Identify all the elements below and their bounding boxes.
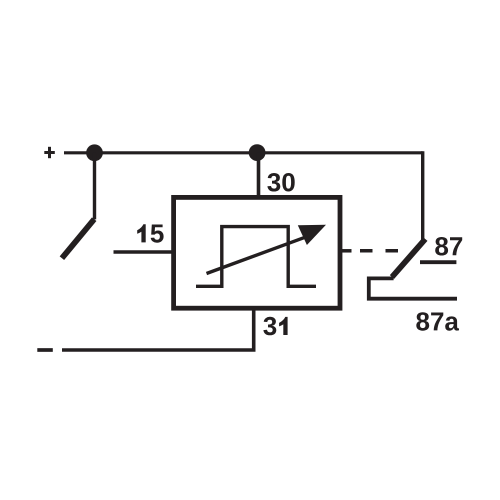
flasher pulse waveform symbol inside K1: [196, 227, 316, 287]
wire: terminal 15 lead into relay box: [114, 250, 173, 254]
junction node B (dot over supply rail, terminal 30 feed): [249, 144, 266, 161]
variability arrow shaft across pulse symbol: [207, 236, 309, 273]
switch S2 relay contact arm (movable, resting on 87a): [392, 239, 425, 277]
terminal 87a contact bracket and lead: [369, 278, 457, 298]
battery minus terminal symbol: [37, 348, 53, 352]
wire: terminal 31 drop from relay box bottom: [252, 308, 256, 350]
terminal label 30: [267, 173, 294, 192]
relay box K1 (flasher unit outline): [174, 197, 340, 308]
wire: ground return line to minus terminal: [62, 348, 256, 352]
battery plus terminal symbol: [44, 147, 55, 158]
terminal label 15: [137, 224, 163, 242]
terminal label 31: [263, 317, 287, 336]
terminal label 87a: [416, 312, 459, 331]
wire: right vertical drop to relay contact: [421, 151, 424, 239]
wire: stub from relay box right side (internal contact feed): [341, 249, 352, 253]
wire: supply rail from + to right corner: [64, 151, 423, 154]
junction node A (dot over supply rail, left): [86, 144, 103, 161]
wire: terminal 30 drop from node B to relay box: [257, 153, 261, 196]
wire: dashed mechanical link to contact arm: [360, 249, 398, 253]
switch S1 (control switch, open arm): [62, 219, 94, 258]
wire: from node A down to control switch S1: [93, 153, 96, 220]
terminal label 87: [435, 237, 462, 256]
variability arrow head: [298, 225, 326, 245]
terminal 87 fixed contact line: [420, 260, 456, 264]
